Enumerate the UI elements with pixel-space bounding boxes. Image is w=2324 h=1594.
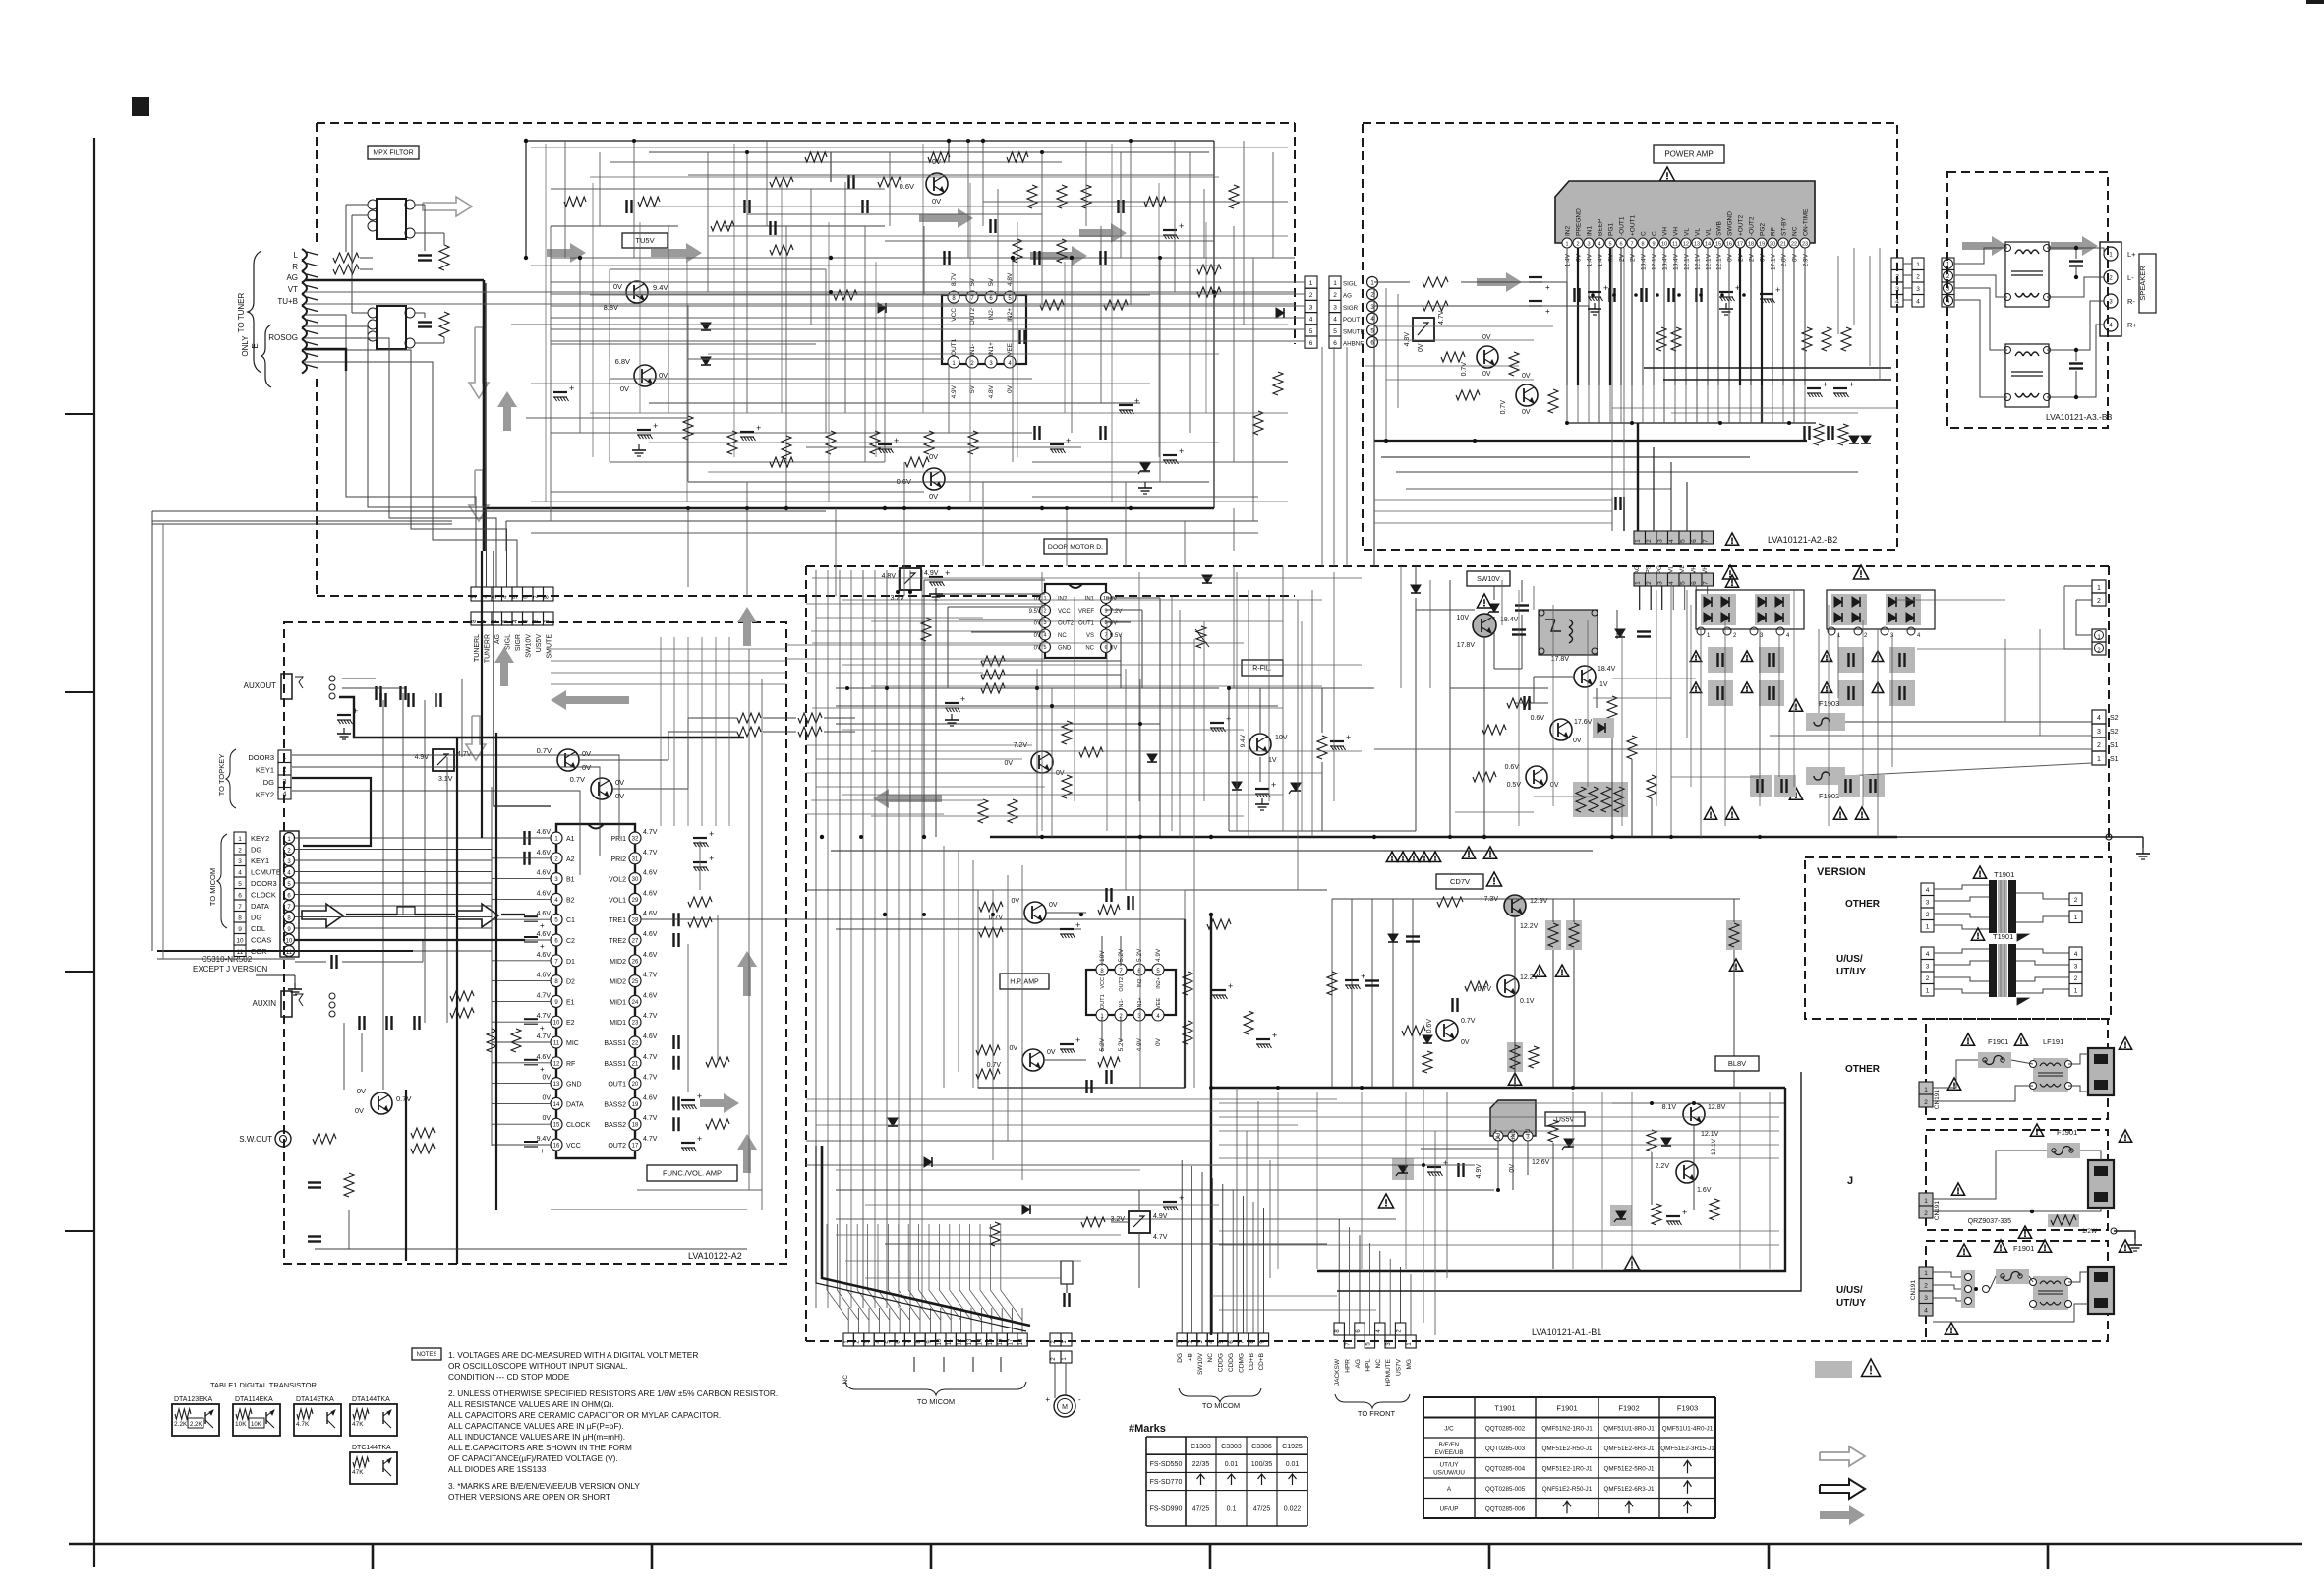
svg-text:9.4V: 9.4V [1240,734,1247,747]
svg-text:0V: 0V [1034,621,1041,627]
svg-text:DTA114EKA: DTA114EKA [235,1396,273,1403]
wire [1782,385,1784,423]
diode dm [1202,575,1212,583]
svg-text:4: 4 [2097,715,2101,722]
wire [836,1169,1140,1171]
power amp pin 8 C [1638,238,1648,248]
transistor Q rfil [1249,734,1271,755]
svg-text:A1: A1 [566,836,575,843]
IC pin 21 BASS1 [629,1057,641,1069]
dots extra [820,835,824,839]
svg-text:ST-BY: ST-BY [1781,217,1788,236]
wire [1739,385,1741,423]
wire [1233,508,1235,551]
svg-text:0V: 0V [582,749,591,758]
svg-text:5: 5 [1309,328,1313,335]
svg-text:4: 4 [1333,317,1337,324]
border frame bottom line [69,1543,2302,1546]
svg-text:0V: 0V [1461,1039,1470,1046]
svg-text:4: 4 [512,620,519,623]
wire [828,222,830,502]
svg-text:QMF51U1-4R0-J1: QMF51U1-4R0-J1 [1662,1425,1714,1432]
power amp pin 7 +OUT1 [1627,238,1637,248]
resistor func r6 [798,727,822,737]
resistor R [805,152,827,162]
svg-text:4.6V: 4.6V [537,829,552,836]
wire sw10 net [1416,609,1475,611]
svg-text:0V: 0V [929,492,938,501]
wire [1125,482,1127,566]
wire [1139,679,1141,1088]
svg-text:+: + [1066,436,1071,445]
svg-text:30: 30 [632,877,639,883]
warning F1903 [1789,699,1802,711]
transistor Q pwr1 [1477,346,1498,368]
svg-text:4.8V: 4.8V [1404,332,1411,347]
diode D mpx1 [701,323,711,330]
wire mpx verticals [550,226,552,521]
svg-text:0V: 0V [620,384,629,393]
svg-text:22: 22 [1791,242,1797,248]
res sw v2 [1627,736,1637,759]
wire [969,183,971,502]
wire [1793,590,1795,787]
svg-text:3: 3 [1895,286,1899,293]
AHB label [947,320,986,336]
frame tick x1231 [1209,1544,1212,1569]
res rfil v [1317,736,1327,759]
svg-text:5: 5 [1680,539,1687,543]
wire [551,648,786,650]
wire [590,294,1150,296]
svg-text:12.1V: 12.1V [1701,1131,1719,1138]
svg-text:21: 21 [1780,242,1786,248]
wire [564,141,566,258]
svg-text:UT/UY: UT/UY [1836,967,1866,977]
wire [1106,621,1108,831]
svg-text:4: 4 [1924,1308,1928,1315]
wire [1671,412,1858,414]
svg-text:3: 3 [1657,581,1664,585]
svg-text:+: + [1545,307,1550,316]
svg-text:18.4V: 18.4V [1662,253,1669,270]
svg-text:4.9V: 4.9V [951,384,958,398]
svg-text:0.6V: 0.6V [1426,1019,1433,1033]
svg-text:BASS2: BASS2 [604,1122,626,1129]
svg-text:+: + [540,1065,545,1074]
R-FIL label [1242,660,1283,676]
wire [1612,678,1696,679]
warning lf191 [2014,1033,2027,1045]
zener 4.9V box [433,749,454,771]
resistor center v [921,618,931,641]
svg-text:0V: 0V [1522,373,1531,380]
wire [1818,629,1820,713]
cap hp bot [1105,1070,1107,1084]
svg-text:2. UNLESS OTHERWISE SPECIFIED: 2. UNLESS OTHERWISE SPECIFIED RESISTORS … [448,1388,778,1398]
svg-text:3: 3 [1924,1295,1928,1302]
transistor Q us7 b [1676,1161,1698,1183]
IC pin 19 BASS2 [629,1097,641,1109]
capacitor C spk2 [2069,362,2083,364]
svg-text:DTA144TKA: DTA144TKA [352,1396,390,1403]
wire [786,658,1045,660]
svg-text:3: 3 [2097,729,2101,736]
gnd c5310 [294,983,296,989]
svg-text:4.6V: 4.6V [643,870,658,877]
svg-text:5: 5 [512,595,519,599]
fuse F1903 [1806,713,1845,731]
svg-text:9.5V: 9.5V [1110,633,1122,639]
wire [1374,339,1534,341]
svg-text:0.022: 0.022 [1284,1505,1302,1512]
wire [1429,580,1431,688]
svg-text:10: 10 [286,939,293,945]
warning row bottom bridges [1704,807,1716,819]
cap hp top1 [1105,888,1107,902]
wire [1219,1144,1779,1146]
LC filter L spk2 [2005,344,2049,407]
transistor Q dm [1031,751,1053,773]
svg-text:CD7V: CD7V [1450,877,1470,886]
wire [1759,634,1761,806]
wire mpx top rail [526,140,1214,142]
svg-text:4.6V: 4.6V [643,992,658,999]
svg-text:6: 6 [1619,242,1622,248]
wire [1533,586,1535,610]
wire [1917,648,2064,650]
gray resistor block 4x [1573,782,1628,817]
wire thick func [339,697,744,738]
wire [806,1110,1317,1112]
zener center2 [1489,604,1499,612]
svg-text:8: 8 [1641,242,1644,248]
diode after transformer [1615,629,1625,637]
svg-text:DTA123EKA: DTA123EKA [174,1396,212,1403]
svg-text:SMUTE: SMUTE [547,634,553,659]
ecap input [524,1059,538,1061]
svg-text:4: 4 [238,870,242,877]
svg-text:1. VOLTAGES ARE DC-MEASURED W: 1. VOLTAGES ARE DC-MEASURED WITH A DIGIT… [448,1350,698,1360]
resistor vert auxin1 [487,1029,496,1052]
resistor func r4 [737,727,761,737]
transistor Q sw2 [1574,666,1596,687]
wire [845,1260,1081,1262]
capacitor C eq [672,1056,674,1070]
cap bottom [1063,1293,1065,1307]
svg-text:1: 1 [283,754,287,761]
svg-text:E2: E2 [566,1020,575,1027]
svg-text:L+: L+ [2127,250,2136,259]
ecap rfil [1255,788,1269,790]
wire [982,482,984,566]
wire [686,262,688,502]
wire [1120,152,1122,258]
svg-text:3: 3 [238,858,242,865]
svg-text:10K: 10K [235,1421,247,1428]
warning f1901 J [2030,1124,2043,1136]
ecap hp in2 [1060,1043,1074,1045]
svg-text:IN1: IN1 [1587,226,1594,237]
resistor pa right v [1814,424,1824,445]
svg-text:ALL DIODES ARE 1SS133: ALL DIODES ARE 1SS133 [448,1464,547,1474]
svg-text:SWB: SWB [1716,221,1723,236]
power amp pin 11 VH [1670,238,1680,248]
IC pin 25 MID2 [629,975,641,987]
power amp pin 17 +OUT2 [1735,238,1745,248]
capacitor C pa [1608,288,1610,302]
svg-text:0V: 0V [1482,371,1491,378]
arrow left door motor [873,789,942,808]
wire [1455,811,1534,813]
svg-text:4.6V: 4.6V [643,952,658,959]
wire [1277,1092,1279,1269]
svg-text:KEY2: KEY2 [256,791,274,799]
arrow gray out1 [700,1093,739,1113]
connector CN191 UUS [1919,1267,1933,1279]
svg-text:#Marks: #Marks [1129,1423,1166,1435]
svg-text:TU+B: TU+B [277,297,298,306]
wire [1246,1131,1248,1333]
wire [1877,629,1879,837]
svg-text:1: 1 [1309,280,1313,287]
IC pin 8 D2 [551,975,562,987]
svg-text:2V: 2V [1630,253,1637,262]
wire [708,471,1150,473]
svg-text:VCC: VCC [566,1143,581,1150]
wire [835,508,837,596]
svg-text:17.6V: 17.6V [1574,719,1593,726]
wire [871,685,1322,687]
svg-text:OR OSCILLOSCOPE WITHOUT INPUT: OR OSCILLOSCOPE WITHOUT INPUT SIGNAL. [448,1361,628,1371]
svg-text:US5V: US5V [536,634,543,653]
IC pin 22 BASS1 [629,1036,641,1048]
wire [1609,385,1611,423]
svg-text:QMF51E2-5R0-J1: QMF51E2-5R0-J1 [1603,1465,1655,1472]
warning pwr conn [1725,533,1738,545]
svg-text:HPR: HPR [1345,1359,1352,1373]
svg-text:1: 1 [238,836,242,843]
capacitor block gray [1750,775,1772,797]
svg-text:SPEAKER: SPEAKER [2138,266,2147,301]
frame tick y704 [65,691,94,693]
svg-text:POWER AMP: POWER AMP [1664,149,1713,158]
svg-text:3. *MARKS ARE B/E/EN/EV/EE/UB: 3. *MARKS ARE B/E/EN/EV/EE/UB VERSION ON… [448,1481,640,1491]
resistor R mpx h [1040,300,1064,310]
svg-text:+: + [1361,972,1365,981]
svg-text:3: 3 [1657,539,1664,543]
wire [1707,385,1709,423]
U/US line filter dashed outline [1926,1241,2108,1341]
resistor R mpx [782,436,791,459]
svg-text:C: C [1652,231,1658,236]
svg-text:10: 10 [553,1021,560,1027]
transistor Q mpx3 [926,173,948,195]
warning row sw2 [1462,847,1475,858]
border frame left line [93,138,95,1567]
IC pin 2 A2 [551,853,562,864]
svg-text:OUT2: OUT2 [1119,977,1125,992]
zener cd7v [1388,934,1398,942]
capacitor C mpx [847,175,849,189]
capacitor C eq [672,1096,674,1110]
solid arrow right e [1079,223,1127,243]
svg-text:4.9V: 4.9V [1153,1213,1168,1220]
svg-text:RF: RF [566,1061,575,1068]
svg-text:13: 13 [553,1082,560,1088]
filter LF191 [2033,1058,2068,1092]
wire [1203,189,1205,258]
resistor R mpx [1057,239,1067,263]
wire [1174,141,1176,292]
wire [1828,605,1830,826]
svg-text:7: 7 [1630,242,1633,248]
wire [865,1277,1062,1279]
wire [1385,288,1387,441]
svg-text:1: 1 [2074,988,2078,995]
resistor func r3 [737,713,761,723]
svg-text:4.6V: 4.6V [643,931,658,938]
wire [1686,590,1688,738]
wire [688,174,1214,176]
svg-text:16: 16 [998,1338,1004,1345]
res hp mid [1207,919,1231,929]
svg-text:0.1: 0.1 [1227,1505,1237,1512]
svg-text:23: 23 [1802,242,1808,248]
cap sw [1523,696,1525,710]
svg-text:4.9V: 4.9V [1136,1037,1143,1051]
svg-text:4.7V: 4.7V [643,850,658,856]
svg-text:AUXOUT: AUXOUT [244,681,276,690]
US5V label [1545,1112,1585,1126]
svg-text:0V: 0V [1047,1049,1056,1056]
svg-text:DATA: DATA [251,902,269,911]
svg-text:5: 5 [1043,645,1046,651]
svg-text:47/25: 47/25 [1192,1505,1210,1512]
svg-text:4.7V: 4.7V [643,1075,658,1082]
wire left drop thick [305,349,346,371]
capacitor C [861,200,863,213]
ecap sig1 [1529,276,1542,278]
inductor tuner coil [302,249,307,261]
svg-text:9: 9 [1652,242,1655,248]
connector SIGL strip col1 [1305,276,1317,288]
resistor mpx vert2 [439,312,449,337]
svg-text:3: 3 [2074,964,2078,971]
ecap mpx g [1163,454,1177,456]
wire [531,147,1288,148]
wire [1611,248,1613,531]
svg-text:VOL2: VOL2 [609,877,626,884]
svg-text:TO MICOM: TO MICOM [917,1397,955,1406]
wire [592,183,594,457]
wire [1769,1092,1771,1269]
wire [599,152,601,226]
diode center bl1 [888,1118,898,1126]
resistor R mpx h [770,245,793,255]
resistor R mpx [826,431,836,454]
svg-text:2.9V: 2.9V [1803,253,1810,266]
gray res far right [1726,920,1742,950]
diode dm3 [1147,754,1157,762]
svg-text:4.7V: 4.7V [643,1115,658,1122]
svg-text:+: + [1179,446,1184,456]
svg-text:0V: 0V [1034,633,1041,639]
svg-text:LVA10122-A2: LVA10122-A2 [688,1251,742,1261]
wire [1891,634,1893,767]
wire [1434,1131,1436,1335]
wire [1219,1157,1779,1159]
wire [1374,499,1612,501]
svg-text:12.1V: 12.1V [1695,253,1702,270]
svg-text:CN191: CN191 [1934,1090,1941,1110]
svg-text:1: 1 [1895,262,1899,268]
wire [1778,634,1780,777]
resistor R mpx h [770,457,793,467]
wire [1750,385,1752,423]
svg-text:6: 6 [238,893,242,900]
IC pin 3 B1 [551,873,562,885]
wire [1085,141,1087,226]
fuse F1901 J [2047,1143,2080,1158]
svg-text:3.2V: 3.2V [891,595,905,602]
svg-text:6: 6 [1691,581,1698,585]
svg-text:VS: VS [1086,633,1094,639]
resistor sw out r3 [411,1144,435,1153]
svg-text:+: + [1272,1031,1277,1040]
ecap mpx f [1163,229,1177,231]
resistor pwr vert1 [1509,352,1519,376]
wire [1171,597,1173,831]
connector 9pin TO MICOM [1177,1333,1187,1346]
wire [806,772,1042,774]
wire [551,660,786,662]
transformer T1901 UUS [1921,947,1934,960]
wire [1282,566,1284,831]
ecap pa2 [1719,291,1733,293]
svg-text:4.7V: 4.7V [1153,1234,1168,1241]
svg-text:15: 15 [553,1123,560,1129]
svg-text:2V: 2V [1619,253,1626,262]
wire mpx mid h rails [551,257,1295,259]
wire [1184,521,1186,566]
svg-text:CDMG: CDMG [1238,1353,1245,1373]
res cd base2 [1402,1026,1425,1035]
svg-text:0.7V: 0.7V [396,1094,411,1103]
svg-text:TABLE1 DIGITAL TRANSISTOR: TABLE1 DIGITAL TRANSISTOR [210,1381,318,1389]
svg-text:E: E [251,343,260,348]
wire [806,813,944,815]
svg-text:5: 5 [238,881,242,888]
capacitor C eq [672,933,674,947]
wire [1739,1092,1741,1269]
svg-text:F1901: F1901 [2013,1244,2034,1253]
svg-text:AG: AG [494,634,501,644]
svg-text:CDDG: CDDG [1218,1353,1225,1372]
warning cd7v [1486,872,1501,886]
svg-text:TO TOPKEY: TO TOPKEY [217,754,226,797]
ecap hp right4 [1256,1038,1270,1040]
cap cd couple [1451,998,1453,1012]
svg-text:0V: 0V [1034,646,1041,652]
wire [1361,1092,1363,1269]
svg-text:+OUT2: +OUT2 [1738,214,1745,236]
svg-text:BASS1: BASS1 [604,1040,626,1047]
res hp bot [1098,1057,1120,1067]
svg-text:MIC: MIC [566,1040,579,1047]
fuse F1901 other [1978,1052,2011,1068]
svg-text:+: + [709,854,714,863]
